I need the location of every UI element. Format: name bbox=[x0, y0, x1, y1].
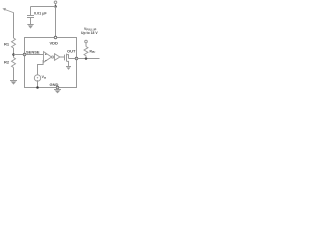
terminal VDD supply bbox=[54, 1, 57, 4]
node VDD pin bbox=[54, 36, 57, 39]
ground bbox=[54, 90, 61, 94]
capacitor C1 bbox=[27, 7, 34, 25]
wire bbox=[77, 58, 100, 60]
svg-text:R2: R2 bbox=[4, 59, 10, 64]
svg-text:VIT: VIT bbox=[42, 75, 47, 80]
node OUT pin bbox=[75, 57, 78, 60]
wire bbox=[13, 48, 15, 58]
voltage reference VIT bbox=[34, 75, 40, 83]
wire bbox=[55, 7, 57, 38]
svg-text:R1: R1 bbox=[4, 41, 10, 46]
svg-text:RPU: RPU bbox=[90, 49, 96, 54]
op-amp comparator U1A bbox=[44, 52, 54, 63]
node reference ground junction bbox=[36, 86, 39, 89]
resistor R2 bbox=[12, 58, 16, 68]
wire bbox=[14, 54, 25, 56]
wire bbox=[37, 81, 39, 87]
buffer U1B bbox=[55, 54, 60, 61]
resistor RPU bbox=[84, 47, 88, 59]
node pullup junction bbox=[85, 57, 88, 60]
wire bbox=[69, 58, 77, 60]
svg-text:GND: GND bbox=[50, 82, 59, 87]
wire bbox=[38, 60, 44, 75]
wire bbox=[55, 4, 57, 7]
node divider junction bbox=[12, 53, 15, 56]
svg-text:−: − bbox=[45, 58, 47, 62]
node SENSE pin bbox=[23, 53, 26, 56]
ground bbox=[66, 67, 71, 70]
node GND pin bbox=[56, 86, 59, 89]
wire bbox=[53, 56, 56, 58]
input arrow VIN bbox=[2, 8, 13, 13]
wire bbox=[60, 56, 65, 58]
transistor Q1 NMOS bbox=[65, 54, 69, 67]
ground bbox=[10, 81, 17, 85]
node top rail junction bbox=[54, 5, 57, 8]
svg-text:+: + bbox=[45, 52, 47, 56]
svg-text:VDD: VDD bbox=[50, 40, 59, 45]
wire bbox=[85, 43, 87, 47]
wire bbox=[13, 68, 15, 81]
ground bbox=[27, 25, 33, 29]
wire bbox=[57, 88, 59, 90]
terminal VPULLUP bbox=[85, 40, 88, 43]
svg-text:SENSE: SENSE bbox=[26, 49, 40, 54]
svg-text:0.01 µF: 0.01 µF bbox=[34, 12, 47, 16]
wire bbox=[31, 6, 56, 8]
svg-text:OUT: OUT bbox=[67, 49, 76, 54]
svg-text:Up to 18 V: Up to 18 V bbox=[81, 31, 98, 35]
wire bbox=[25, 54, 44, 56]
IC U1 box bbox=[25, 38, 77, 88]
resistor R1 bbox=[12, 38, 16, 48]
wire bbox=[13, 12, 15, 38]
